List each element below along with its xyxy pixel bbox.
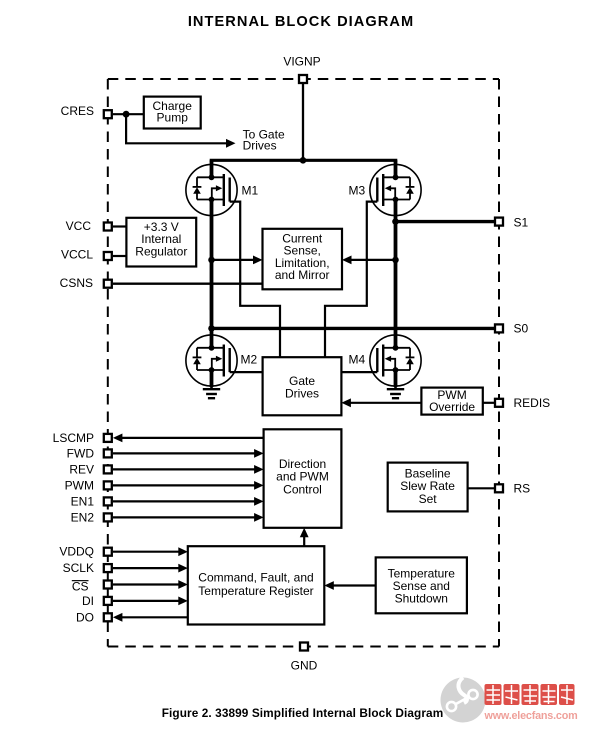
wire S0 rail [212, 327, 495, 330]
node M3 sense tap [392, 257, 399, 264]
watermark brand glyphs [485, 684, 575, 705]
wire M2 source to ground [210, 370, 214, 387]
svg-text:Shutdown: Shutdown [395, 592, 448, 606]
+3.3V internal regulator box [126, 218, 196, 267]
charge pump U1 box [144, 97, 201, 129]
current sense limitation and mirror box [263, 229, 343, 289]
wire DO from command register [120, 616, 188, 618]
svg-text:SCLK: SCLK [63, 561, 94, 575]
arrow DO out [113, 613, 123, 622]
pin VCC [104, 223, 112, 231]
watermark logo circle [441, 678, 486, 723]
wire baseline slew rate set to RS [468, 487, 494, 489]
pin DO [104, 613, 112, 621]
svg-text:GND: GND [291, 659, 318, 673]
svg-text:Temperature Register: Temperature Register [198, 584, 313, 598]
wire M3 gate staircase to gate drives [325, 202, 377, 358]
arrow into command register [324, 581, 334, 590]
svg-text:M4: M4 [349, 353, 366, 367]
svg-text:CS: CS [72, 580, 89, 594]
svg-text:EN2: EN2 [71, 510, 95, 524]
IC boundary dashed frame [108, 79, 499, 647]
arrow to gate drives [226, 139, 236, 148]
svg-text:VIGNP: VIGNP [283, 55, 320, 69]
pin S1 [495, 218, 503, 226]
pin S0 [495, 324, 503, 332]
wire M4 gate to gate drives [341, 371, 377, 373]
svg-text:REDIS: REDIS [514, 396, 551, 410]
wire PWM [113, 484, 257, 486]
gate drives box [263, 357, 342, 415]
wire VIGNP drop [302, 84, 304, 160]
pin EN1 [104, 497, 112, 505]
svg-text:Command, Fault, and: Command, Fault, and [198, 571, 313, 585]
arrow FWD in [254, 449, 264, 458]
arrow into current sense right [342, 256, 352, 265]
wire VCC to regulator [113, 225, 127, 227]
svg-text:and Mirror: and Mirror [275, 268, 330, 282]
svg-text:CRES: CRES [61, 104, 94, 118]
svg-text:Drives: Drives [243, 139, 277, 153]
command fault and temperature register box [188, 546, 324, 624]
svg-text:S0: S0 [514, 321, 529, 335]
svg-text:INTERNAL BLOCK DIAGRAM: INTERNAL BLOCK DIAGRAM [188, 14, 414, 30]
ground below M2 [203, 382, 220, 398]
svg-text:Regulator: Regulator [135, 245, 187, 259]
arrow EN1 in [254, 497, 264, 506]
arrow DI in [178, 597, 188, 606]
pin DI [104, 597, 112, 605]
transistor M4 [370, 335, 421, 386]
wire M1 node to current sense arrow [212, 259, 256, 261]
transistor M2 [186, 335, 237, 386]
wire S1 rail [396, 220, 495, 223]
svg-text:FWD: FWD [67, 446, 95, 460]
pin VDDQ [104, 548, 112, 556]
pin FWD [104, 449, 112, 457]
svg-text:EN1: EN1 [71, 494, 95, 508]
svg-text:VCCL: VCCL [61, 247, 93, 261]
pin VIGNP [299, 75, 307, 83]
svg-text:LSCMP: LSCMP [53, 431, 94, 445]
svg-text:VDDQ: VDDQ [59, 545, 94, 559]
wire EN2 [113, 516, 257, 518]
ground below M4 [387, 382, 404, 398]
wire temperature sense to command register [331, 584, 376, 586]
node S1 junction [392, 218, 399, 225]
wire VDDQ [113, 551, 181, 553]
svg-text:Override: Override [429, 400, 475, 414]
wire REDIS to PWM override [483, 402, 494, 404]
svg-text:M2: M2 [241, 353, 258, 367]
svg-text:RS: RS [514, 481, 531, 495]
svg-text:Figure 2. 33899 Simplified Int: Figure 2. 33899 Simplified Internal Bloc… [162, 706, 444, 720]
wire EN1 [113, 500, 257, 502]
node S0 junction [208, 325, 215, 332]
pin VCCL [104, 252, 112, 260]
svg-text:Set: Set [419, 492, 438, 506]
arrow PWM in [254, 481, 264, 490]
baseline slew rate set box [388, 463, 468, 512]
svg-text:S1: S1 [514, 215, 529, 229]
node CRES junction [123, 111, 130, 118]
wire command register to direction control [303, 533, 305, 546]
pin REDIS [495, 399, 503, 407]
arrow into gate drives right [341, 398, 351, 407]
svg-text:www.elecfans.com: www.elecfans.com [484, 710, 578, 722]
pin SCLK [104, 564, 112, 572]
pin CSNS [104, 280, 112, 288]
transistor M3 [370, 164, 421, 215]
wire CSNS to current sense box [113, 283, 263, 285]
svg-text:PWM: PWM [65, 478, 94, 492]
svg-text:DO: DO [76, 610, 94, 624]
pin GND [300, 643, 308, 651]
pin LSCMP [104, 434, 112, 442]
svg-text:Pump: Pump [157, 111, 189, 125]
svg-text:M1: M1 [242, 184, 259, 198]
pin CS [104, 581, 112, 589]
wire CRES branch to gate drives arrow [126, 114, 228, 143]
wire M1 gate staircase to gate drives [230, 202, 280, 358]
pin RS [495, 484, 503, 492]
wire M4 source to ground [394, 370, 398, 387]
direction and PWM control box [264, 429, 342, 528]
wire LSCMP from direction control [120, 437, 264, 439]
arrow VDDQ in [178, 547, 188, 556]
wire CRES to charge pump [113, 113, 144, 115]
wire M3 drain stub [394, 160, 398, 177]
svg-text:REV: REV [69, 462, 94, 476]
pin REV [104, 465, 112, 473]
overbar of CS [72, 580, 89, 582]
svg-text:Drives: Drives [285, 386, 319, 400]
wire M3 node to current sense arrow [349, 259, 396, 261]
arrow up into direction control [300, 528, 309, 538]
arrow SCLK in [178, 564, 188, 573]
svg-text:Control: Control [283, 482, 322, 496]
wire M2 gate to gate drives [230, 371, 263, 373]
pin CRES [104, 110, 112, 118]
wire REV [113, 468, 257, 470]
node VIGNP rail junction [300, 157, 307, 164]
wire FWD [113, 452, 257, 454]
wire M3 source to M4 drain column [394, 200, 398, 348]
arrow EN2 in [254, 513, 264, 522]
wire M1 drain stub [210, 160, 214, 177]
svg-text:VCC: VCC [66, 219, 92, 233]
PWM override box [421, 388, 482, 415]
temperature sense and shutdown box [376, 557, 467, 613]
arrow CS in [178, 580, 188, 589]
svg-text:CSNS: CSNS [60, 276, 93, 290]
wire VIGNP top rail [210, 159, 398, 162]
wire DI [113, 600, 181, 602]
arrow LSCMP out [113, 434, 123, 443]
transistor M1 [186, 164, 237, 215]
node M1 sense tap [208, 257, 215, 264]
pin EN2 [104, 513, 112, 521]
arrow REV in [254, 465, 264, 474]
pin PWM [104, 481, 112, 489]
svg-text:M3: M3 [349, 184, 366, 198]
wire CS [113, 583, 181, 585]
svg-text:DI: DI [82, 594, 94, 608]
wire M1 source to M2 drain column [210, 200, 214, 348]
wire PWM override to gate drives [348, 402, 421, 404]
wire SCLK [113, 567, 181, 569]
wire VCCL to regulator [113, 255, 127, 257]
arrow into current sense left [253, 256, 263, 265]
